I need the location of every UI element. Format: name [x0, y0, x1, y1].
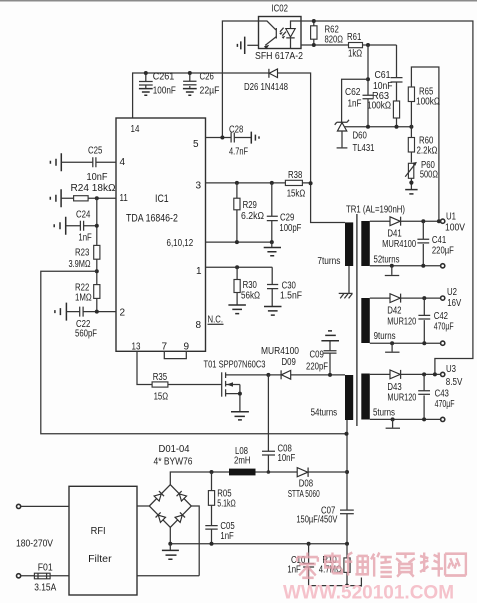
svg-text:2mH: 2mH: [234, 456, 251, 467]
capacitor C09: [324, 341, 337, 375]
inductor L08: [229, 469, 256, 476]
svg-text:U1: U1: [446, 212, 456, 223]
svg-text:100kΩ: 100kΩ: [367, 101, 391, 112]
svg-text:6,10,12: 6,10,12: [167, 238, 194, 249]
box to bridge AC bottom wire: [137, 575, 199, 577]
feedback divider top wire: [411, 67, 439, 221]
svg-text:4: 4: [120, 157, 126, 168]
resistor R61: [349, 43, 363, 48]
ground pin11: [50, 189, 61, 207]
svg-text:820Ω: 820Ω: [325, 35, 344, 46]
svg-text:D43: D43: [387, 382, 401, 393]
light arrows inside IC02: [280, 28, 286, 36]
node U2: [441, 296, 445, 300]
svg-text:4.7nF: 4.7nF: [229, 147, 248, 158]
node U3: [441, 372, 445, 376]
resistor R65: [408, 87, 414, 102]
shunt regulator D60 TL431: [342, 79, 368, 122]
svg-text:56kΩ: 56kΩ: [241, 291, 260, 302]
wire from pin5 node up and to optocoupler left: [222, 21, 258, 138]
ground pins 6,10,12: [264, 248, 281, 256]
resistor R30: [236, 267, 238, 304]
resistor R23: [94, 245, 100, 259]
svg-text:470µF: 470µF: [434, 322, 454, 333]
TR1 core: [356, 214, 358, 426]
svg-text:180-270V: 180-270V: [16, 539, 53, 550]
svg-text:C41: C41: [432, 235, 446, 246]
svg-text:U2: U2: [447, 287, 457, 298]
svg-text:R38: R38: [288, 170, 302, 181]
svg-text:10nF: 10nF: [278, 453, 296, 464]
hatched return of aux winding: [348, 266, 350, 293]
capacitor C07: [340, 509, 354, 511]
capacitor C30: [267, 267, 278, 306]
svg-text:8.5V: 8.5V: [446, 377, 463, 388]
svg-text:14: 14: [131, 124, 140, 135]
svg-text:C25: C25: [88, 146, 102, 157]
svg-text:16V: 16V: [447, 298, 461, 309]
svg-text:F01: F01: [38, 563, 53, 574]
RFI filter box: [69, 486, 137, 595]
svg-text:MUR120: MUR120: [387, 317, 416, 328]
pin 5 wire: [206, 137, 231, 139]
wire opto LED cathode row: [301, 44, 349, 46]
capacitor C08 with drain column: [262, 375, 275, 472]
svg-text:500Ω: 500Ω: [420, 170, 438, 181]
svg-text:10nF: 10nF: [87, 172, 108, 183]
svg-text:D09: D09: [282, 357, 296, 368]
mains input terminal top: [17, 504, 21, 508]
svg-text:2: 2: [120, 308, 126, 319]
diode D43 MUR120: [370, 373, 441, 375]
svg-text:C42: C42: [434, 311, 448, 322]
svg-text:1: 1: [196, 266, 202, 277]
TR1 winding 5 turns: [361, 374, 370, 420]
svg-text:9turns: 9turns: [374, 331, 396, 342]
bridge diode upper-left: [154, 491, 164, 501]
svg-text:100V: 100V: [445, 223, 465, 234]
5t bottom wire: [370, 418, 441, 420]
svg-text:15kΩ: 15kΩ: [287, 189, 306, 200]
ground under R30: [228, 305, 246, 314]
svg-text:4* BYW76: 4* BYW76: [154, 457, 193, 468]
svg-text:R30: R30: [243, 280, 258, 291]
svg-text:IC1: IC1: [155, 193, 169, 205]
svg-text:R29: R29: [243, 200, 257, 211]
svg-text:C62: C62: [345, 87, 361, 98]
svg-text:2.2kΩ: 2.2kΩ: [417, 146, 438, 157]
bridge AC right wire: [191, 506, 199, 576]
svg-text:5turns: 5turns: [373, 408, 395, 419]
svg-text:MUR4100: MUR4100: [261, 346, 300, 357]
resistor R22: [94, 285, 100, 299]
capacitor C61: [391, 45, 403, 101]
svg-text:1nF: 1nF: [348, 99, 362, 110]
svg-text:WWW.520101.COM: WWW.520101.COM: [283, 583, 454, 603]
svg-text:RFI: RFI: [91, 526, 106, 537]
svg-text:7: 7: [162, 342, 168, 353]
svg-text:TR1 (AL=190nH): TR1 (AL=190nH): [346, 205, 405, 216]
resistor R29: [236, 183, 238, 242]
svg-text:C43: C43: [435, 389, 449, 400]
ground under C30: [264, 307, 282, 316]
svg-text:R35: R35: [153, 372, 167, 383]
diode D09 MUR4100: [268, 374, 345, 376]
main ground symbol: [169, 544, 171, 550]
resistor R10: [346, 544, 348, 558]
52t bottom wire: [370, 265, 441, 267]
phototransistor inside IC02: [259, 21, 276, 30]
svg-text:13: 13: [132, 342, 141, 353]
TR1 winding 52 turns: [361, 221, 370, 266]
svg-text:1nF: 1nF: [287, 564, 300, 575]
svg-text:5.1kΩ: 5.1kΩ: [217, 499, 236, 510]
svg-text:MUR120: MUR120: [387, 393, 416, 404]
capacitor C24: [66, 221, 97, 231]
resistor R60: [408, 138, 414, 153]
svg-text:D01-04: D01-04: [159, 444, 191, 455]
svg-text:3.9MΩ: 3.9MΩ: [69, 259, 91, 270]
svg-text:C09: C09: [310, 350, 324, 361]
svg-text:54turns: 54turns: [311, 408, 338, 419]
svg-text:C61: C61: [375, 70, 391, 81]
resistor R05: [211, 472, 213, 491]
capacitor C28: [231, 133, 251, 143]
svg-text:SFH 617A-2: SFH 617A-2: [255, 51, 303, 62]
capacitor C10: [303, 544, 314, 586]
wire opto collector to right rail: [301, 21, 473, 374]
svg-text:C261: C261: [153, 72, 175, 83]
svg-text:9: 9: [184, 342, 190, 353]
border top: [0, 0, 477, 2]
svg-text:22µF: 22µF: [200, 86, 220, 97]
pin 1 wire: [206, 266, 273, 268]
svg-text:T01 SPP07N60C3: T01 SPP07N60C3: [204, 360, 266, 371]
svg-text:D42: D42: [387, 306, 401, 317]
svg-text:1nF: 1nF: [220, 531, 233, 542]
svg-text:470µF: 470µF: [435, 399, 455, 410]
capacitor C26: [183, 73, 196, 81]
svg-text:R24 18kΩ: R24 18kΩ: [71, 183, 116, 194]
IC U1 TDA16846-2 box: [116, 118, 206, 351]
capacitor C261: [139, 73, 153, 88]
svg-text:U3: U3: [446, 364, 456, 375]
svg-text:100pF: 100pF: [279, 223, 301, 234]
resistor R35: [152, 382, 168, 387]
TR1 winding 9 turns: [361, 298, 370, 343]
resistor R24: [61, 197, 116, 199]
svg-text:C28: C28: [229, 125, 243, 136]
end bar: [360, 578, 362, 587]
node U1: [437, 219, 441, 223]
TR1 winding 54 turns: [345, 375, 353, 420]
svg-text:C26: C26: [200, 72, 214, 83]
svg-text:STTA 5060: STTA 5060: [288, 489, 320, 500]
resistor R62: [313, 21, 315, 45]
svg-text:3.15A: 3.15A: [34, 583, 56, 594]
startup RC bottom wire: [309, 585, 362, 587]
svg-text:IC02: IC02: [272, 4, 289, 15]
mains input terminal bottom: [17, 574, 21, 578]
capacitor C05: [205, 526, 217, 544]
box to bridge left: [137, 505, 149, 507]
svg-text:220µF: 220µF: [432, 246, 454, 257]
capacitor C29: [267, 183, 278, 242]
svg-text:1kΩ: 1kΩ: [348, 49, 362, 60]
capacitor C25: [61, 157, 116, 167]
potentiometer P60: [408, 163, 413, 178]
svg-text:7turns: 7turns: [317, 256, 340, 267]
svg-text:Filter: Filter: [88, 554, 112, 565]
vcc rail from pin14 to aux winding: [133, 73, 345, 223]
node row under TL431: [344, 126, 411, 128]
svg-text:220pF: 220pF: [306, 362, 328, 373]
9t bottom wire: [370, 342, 441, 344]
capacitor C62: [363, 45, 374, 127]
ground pin2: [55, 303, 67, 321]
bridge minus to ground row: [170, 527, 347, 544]
svg-text:TL431: TL431: [353, 143, 375, 154]
svg-text:R23: R23: [75, 248, 89, 259]
diode D26 1N4148: [268, 69, 270, 78]
pins 7-9 bracket: [164, 351, 186, 358]
capacitor C42: [422, 296, 426, 300]
resistor R63: [393, 101, 399, 118]
node drain: [266, 373, 270, 377]
capacitor C41: [421, 219, 425, 223]
svg-text:TDA 16846-2: TDA 16846-2: [126, 213, 178, 225]
svg-text:C30: C30: [282, 280, 297, 291]
diode D42 MUR120: [370, 297, 441, 299]
bridge diode lower-left: [156, 512, 166, 522]
dc bus row: [170, 472, 347, 485]
svg-text:1nF: 1nF: [78, 233, 91, 244]
capacitor C43: [422, 372, 426, 376]
svg-text:560pF: 560pF: [75, 329, 97, 340]
svg-text:8: 8: [196, 320, 202, 331]
ground pin4: [50, 153, 61, 171]
wire startup node to bottom row: [41, 271, 347, 434]
resistor R38: [285, 180, 302, 185]
svg-text:D60: D60: [353, 131, 368, 142]
svg-text:D26 1N4148: D26 1N4148: [244, 82, 288, 93]
svg-text:1MΩ: 1MΩ: [75, 293, 92, 304]
svg-text:100nF: 100nF: [153, 86, 176, 97]
watermark chinese characters: [297, 553, 466, 578]
ground above C09: [321, 331, 339, 341]
bridge diode upper-right: [177, 491, 187, 501]
capacitor C22: [66, 307, 116, 317]
svg-text:C29: C29: [280, 213, 294, 224]
svg-text:R61: R61: [347, 32, 361, 43]
ground right of C28: [251, 132, 259, 144]
svg-text:100kΩ: 100kΩ: [416, 97, 440, 108]
svg-text:11: 11: [120, 193, 129, 204]
svg-text:D41: D41: [387, 229, 401, 240]
svg-text:D08: D08: [299, 479, 313, 490]
svg-text:3: 3: [196, 181, 202, 192]
pin13 wire to gate resistor: [137, 351, 152, 384]
fuse F01: [21, 575, 69, 577]
TR1 winding 7 turns: [345, 222, 353, 266]
svg-text:15Ω: 15Ω: [154, 392, 169, 403]
svg-text:MUR4100: MUR4100: [382, 239, 416, 250]
LED inside IC02: [291, 21, 302, 29]
ground at source T01: [231, 412, 249, 420]
svg-text:1.5nF: 1.5nF: [280, 291, 302, 302]
svg-text:C24: C24: [76, 210, 91, 221]
pin 3 wire: [206, 182, 311, 184]
svg-text:150µF/450V: 150µF/450V: [296, 515, 337, 526]
optocoupler U IC02 box: [259, 17, 302, 49]
gnd row pins 6,10,12: [206, 241, 273, 243]
svg-text:52turns: 52turns: [374, 255, 400, 266]
ground under P60: [405, 189, 417, 191]
ground C24: [54, 217, 65, 235]
svg-text:6.2kΩ: 6.2kΩ: [241, 211, 264, 222]
ground at IC02 emitter: [247, 44, 258, 46]
primary bottom wire with C07: [346, 420, 348, 544]
diode D41 MUR4100: [370, 220, 441, 222]
svg-text:5: 5: [193, 139, 199, 150]
vertical node wire pins 11-2: [96, 198, 98, 311]
bridge diode lower-right: [175, 512, 185, 522]
diode D08 STTA 5060: [297, 468, 308, 477]
